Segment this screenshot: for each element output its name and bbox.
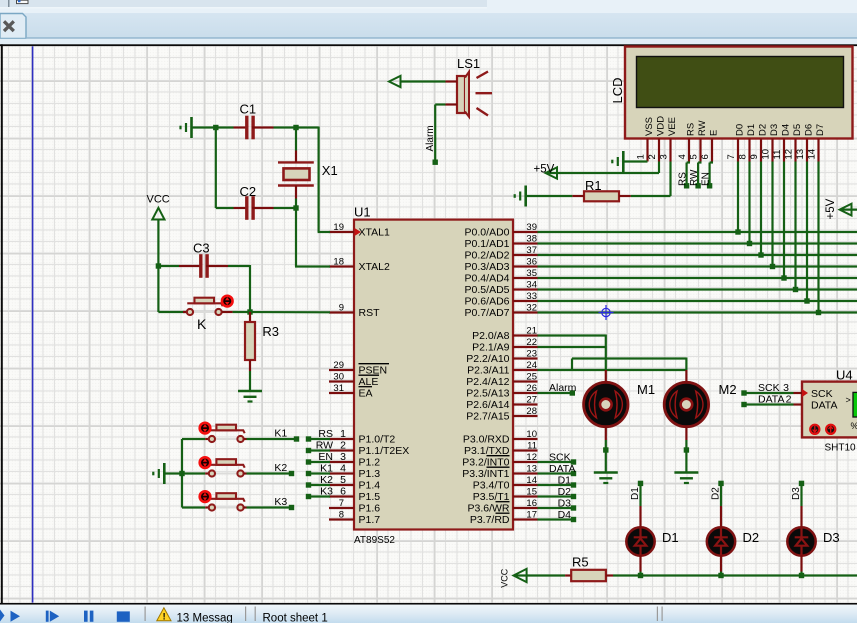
svg-text:XTAL1: XTAL1 [359,227,390,239]
svg-text:RS: RS [318,428,333,440]
svg-text:P0.4/AD4: P0.4/AD4 [465,273,510,285]
svg-text:E: E [708,130,719,136]
junction D1 rail [638,573,643,578]
junction key bank [179,471,184,476]
svg-text:3: 3 [783,382,789,394]
svg-text:C1: C1 [240,102,257,117]
lcd pin VEE stub [669,139,671,162]
pin P1.4 stub [329,484,354,486]
wire P0.4 bus [538,277,857,279]
wire LCD data1 drop [748,162,750,244]
pin P0.2/AD2 stub [513,254,538,256]
wire C1 to X1 node [274,126,298,128]
junction C3 left [156,263,161,268]
node EN start [306,459,311,464]
svg-text:K2: K2 [320,474,333,486]
svg-text:11: 11 [527,440,537,451]
wire P2.0 [538,334,606,336]
svg-text:D1: D1 [746,124,757,136]
svg-text:K3: K3 [274,496,287,508]
capacitor C3 [199,254,202,278]
svg-text:21: 21 [526,325,537,336]
resistor R5 [571,570,606,581]
lead C3 right [206,265,228,267]
sensor knob 1 [810,425,819,434]
wire D3 [538,507,574,509]
svg-text:19: 19 [333,222,344,233]
wire C1 left [216,126,234,128]
svg-text:P0.1/AD1: P0.1/AD1 [465,238,510,250]
wire P2.3 [538,369,687,371]
svg-text:13: 13 [795,149,806,160]
pin P1.6 stub [329,507,354,509]
ground at R1 [524,186,527,207]
svg-text:K3: K3 [320,485,333,497]
svg-text:K: K [197,316,207,332]
svg-text:P3.7/RD: P3.7/RD [470,514,510,526]
pin RST stub [329,311,354,313]
pin P2.6/A14 stub [513,403,538,405]
svg-text:D7: D7 [815,124,826,136]
lead R1 left [572,195,584,197]
wire P0.5 bus [538,288,857,290]
wire +5V to VDD [547,172,660,174]
node D2 end [571,494,576,499]
wire LCD data7 drop [817,162,819,313]
pin P0.5/AD5 stub [513,288,538,290]
svg-text:33: 33 [526,291,537,302]
svg-text:38: 38 [526,233,537,244]
lead X1 top [295,151,297,163]
wire LCD RW hook [698,161,701,163]
svg-text:12: 12 [526,452,537,463]
step button triangle [50,611,59,622]
svg-text:RW: RW [316,439,333,451]
svg-text:VCC: VCC [500,568,510,588]
lcd pin VSS stub [646,139,648,162]
svg-text:M1: M1 [637,382,655,397]
svg-text:X1: X1 [322,163,338,178]
svg-text:EN: EN [318,451,333,463]
junction data0 on P0 [735,229,740,234]
motor M1 [584,382,628,426]
overline INT1 [487,466,510,468]
node SCK U4 [741,390,746,395]
node K1 start [306,471,311,476]
svg-text:P1.3: P1.3 [359,468,381,480]
svg-text:+5V: +5V [825,198,837,219]
pause button [84,611,88,622]
svg-text:D4: D4 [780,124,791,136]
wire C2 left [216,207,234,209]
svg-text:P1.1/T2EX: P1.1/T2EX [359,445,410,457]
lead D1 LED top [639,506,641,529]
svg-text:P0.2/AD2: P0.2/AD2 [465,250,510,262]
svg-text:SHT10: SHT10 [825,443,857,454]
lead M1 bottom [605,427,607,441]
wire C3 left [158,265,179,267]
svg-text:1: 1 [635,154,646,159]
wire K3 left [182,506,205,508]
lcd module body [625,47,853,139]
wire P2.2 jog horizontal [572,357,686,359]
play button [11,611,21,622]
pin P3.4/T0 stub [513,484,538,486]
svg-text:P2.6/A14: P2.6/A14 [466,399,509,411]
wire DATA [538,472,574,474]
svg-text:EN: EN [701,172,712,186]
pin EA stub [329,392,354,394]
svg-text:P2.3/A11: P2.3/A11 [467,365,510,377]
pin P2.3/A11 stub [513,369,538,371]
pin P2.0/A8 stub [513,334,538,336]
sensor display green [853,392,857,417]
lcd pin RW stub [699,139,701,162]
lead D3 LED bottom [800,555,802,572]
wire LCD data4 drop [783,162,785,279]
switch K1 [215,438,237,440]
pin P0.3/AD3 stub [513,265,538,267]
node DATA end [571,471,576,476]
pin P3.6/WR stub [513,507,538,509]
sheet border blue line [32,46,34,602]
lcd pin D2 stub [760,139,762,162]
pin XTAL2 stub [329,265,354,267]
svg-text:K2: K2 [274,462,287,474]
wire D2 [538,495,574,497]
svg-text:DATA: DATA [811,400,837,412]
pin P1.0/T2 stub [329,438,354,440]
svg-text:RST: RST [359,307,381,319]
pin P0.0/AD0 stub [513,231,538,233]
wire to XTAL1 [318,231,330,233]
svg-text:6: 6 [700,154,711,159]
wire X1 top wire [295,128,297,151]
bottom bar background [0,605,857,623]
led D2 [707,527,735,555]
svg-text:%: % [851,421,857,431]
wire EN to pin [309,461,331,463]
svg-text:14: 14 [806,149,817,160]
svg-text:SCK: SCK [811,388,833,400]
junction C1 left [213,125,218,130]
svg-text:24: 24 [526,360,537,371]
lcd pin D7 stub [817,139,819,162]
lcd pin D6 stub [806,139,808,162]
overline INT0 [487,455,510,457]
svg-text:1: 1 [340,428,346,440]
svg-text:23: 23 [526,348,537,359]
overline RD [496,512,510,514]
wire C2 to X1 node [274,207,298,209]
lcd pin D1 stub [748,139,750,162]
wire RS to pin [309,438,331,440]
wire LCD RS drop [685,163,687,185]
pin XTAL1 stub [329,231,354,233]
wire DATA to U4 [744,403,794,405]
svg-text:P1.6: P1.6 [359,503,381,515]
svg-text:P3.0/RXD: P3.0/RXD [463,434,510,446]
svg-text:P3.4/T0: P3.4/T0 [473,480,510,492]
speaker LS1 [457,76,465,113]
lead K left [183,311,187,313]
svg-text:31: 31 [333,383,344,394]
svg-text:P1.7: P1.7 [359,514,381,526]
status separators middle [245,607,246,622]
wire D2 to rail [720,572,722,576]
pin P3.7/RD stub [513,518,538,520]
lead R3 top [249,312,251,322]
top window chrome background [0,0,857,46]
ground below M2 [674,471,698,474]
pin U4 SCK arrow [802,389,808,397]
svg-text:P0.3/AD3: P0.3/AD3 [465,261,510,273]
svg-text:K1: K1 [274,428,287,440]
svg-text:7: 7 [726,154,737,159]
svg-text:D6: D6 [803,124,814,136]
svg-text:P3.3/INT1: P3.3/INT1 [462,468,509,480]
svg-text:AT89S52: AT89S52 [354,535,395,546]
ground at LCD VSS [622,151,625,172]
wire R3 to ground [249,371,251,391]
wire LCD RW drop [697,163,699,185]
wire gnd to C1 junction [192,126,219,128]
toolbar fragment top-left [0,0,487,9]
pin P2.1/A9 stub [513,346,538,348]
wire D2 down [720,483,722,506]
status separator [145,607,146,622]
node RW start [306,448,311,453]
junction D3 rail [799,573,804,578]
svg-text:26: 26 [526,383,537,394]
capacitor C1 [245,116,248,140]
wire VSS to gnd [623,160,647,162]
schematic frame left black border [1,44,3,604]
wire VCC to K row [157,266,159,312]
wire D1 to rail [639,572,641,576]
svg-text:P2.7/A15: P2.7/A15 [466,411,509,423]
svg-text:35: 35 [526,268,537,279]
svg-text:17: 17 [526,509,537,520]
node M2 gnd wire [684,447,689,452]
wire VEE down [669,162,671,197]
junction data6 on P0 [804,298,809,303]
power terminal VCC [152,208,164,220]
node K2 start [306,482,311,487]
lead C1 left [234,126,249,128]
partial button far left [0,610,5,622]
tab bar bottom edge [26,37,857,39]
junction data4 on P0 [781,275,786,280]
svg-text:10: 10 [760,149,771,160]
svg-text:Root sheet 1: Root sheet 1 [263,613,328,623]
svg-text:VEE: VEE [667,117,678,136]
wire P0.0 bus [538,231,857,233]
svg-text:D2: D2 [757,124,768,136]
lead LS1 pin2 [446,103,458,105]
ground below M1 [594,471,618,474]
pin P3.3/INT1 stub [513,472,538,474]
node Alarm wire end [433,160,438,165]
svg-text:DATA: DATA [549,463,575,475]
svg-text:18: 18 [333,256,344,267]
wire X1 bottom wire [295,199,297,209]
svg-text:D3: D3 [558,498,572,510]
svg-text:8: 8 [339,509,344,520]
overline WR [496,501,510,503]
svg-text:10: 10 [526,429,537,440]
svg-text:D3: D3 [791,487,802,500]
svg-text:5: 5 [688,154,699,159]
node K1 end [294,436,299,441]
crystal X1 [278,161,314,163]
lead D1 LED bottom [639,555,641,572]
svg-text:RS: RS [685,123,696,136]
switch K [193,311,215,313]
node LCD RW [695,183,700,188]
svg-text:25: 25 [526,371,537,382]
svg-text:R5: R5 [572,555,589,570]
wire LCD data6 drop [806,162,808,302]
wire P0.1 bus [538,242,857,244]
svg-text:RS: RS [678,172,689,186]
overline PSEN [359,363,390,365]
node SCK end [571,459,576,464]
lead D2 LED top [720,506,722,529]
node D1 end [571,482,576,487]
wire VCC to R5 [514,574,565,576]
svg-text:13 Messag: 13 Messag [177,613,233,623]
wire P0.2 bus [538,254,857,256]
wire LCD data2 drop [760,162,762,256]
ground below R3 [238,390,262,393]
svg-text:RW: RW [689,169,700,186]
svg-text:16: 16 [526,498,537,509]
svg-text:11: 11 [772,150,783,160]
svg-text:28: 28 [526,406,537,417]
pin P2.7/A15 stub [513,415,538,417]
wire LCD EN drop [708,163,710,185]
lcd screen [637,57,844,108]
overline ALE [359,374,380,376]
wire SCK [538,461,574,463]
node D3 top [799,481,804,486]
svg-text:9: 9 [749,154,760,159]
svg-text:15: 15 [526,486,537,497]
svg-text:Alarm: Alarm [425,125,436,151]
wire K to RST [233,311,330,313]
svg-text:3: 3 [658,154,669,159]
pin P3.5/T1 stub [513,495,538,497]
svg-text:12: 12 [783,149,794,160]
lead R5 left [565,574,571,576]
svg-text:29: 29 [333,360,344,371]
wire P2.2 jog vertical [571,359,573,371]
wire gnd to keys junction [164,472,182,474]
power terminal +5V right [840,204,852,216]
svg-text:P2.5/A13: P2.5/A13 [466,388,509,400]
svg-text:34: 34 [526,279,537,290]
wire P0.3 bus [538,265,857,267]
schematic frame bottom black line [0,603,857,605]
svg-text:D2: D2 [558,486,572,498]
switch K2 [215,473,237,475]
wire M1 to gnd [605,440,607,473]
wire +5V right stub [841,209,857,211]
terminal arrow LS1 [389,76,401,87]
svg-text:2: 2 [647,154,658,159]
pin P0.6/AD6 stub [513,300,538,302]
svg-text:R1: R1 [585,178,602,193]
wire D4 [538,518,574,520]
svg-text:22: 22 [526,337,537,348]
led D3 [787,527,815,555]
node D3 end [571,505,576,510]
svg-text:D5: D5 [792,124,803,136]
lcd pin VDD stub [658,139,660,162]
pin P1.3 stub [329,472,354,474]
svg-text:P0.5/AD5: P0.5/AD5 [465,284,510,296]
svg-text:K1: K1 [320,462,333,474]
lead R5 right [606,574,613,576]
junction data1 on P0 [747,241,752,246]
wire K1 to pin [309,472,331,474]
svg-text:D0: D0 [734,124,745,136]
wire LCD RS hook [687,161,690,163]
resistor R3 [245,322,255,360]
wire key bank vertical [181,439,183,508]
svg-text:U4: U4 [836,368,853,383]
svg-text:P1.5: P1.5 [359,491,381,503]
node D1 top [638,481,643,486]
wire VDD down [658,162,660,174]
wire to XTAL2 [295,265,330,267]
svg-text:D2: D2 [710,487,721,500]
lead C1 right [252,126,274,128]
wire K1 right [247,438,297,440]
svg-text:7: 7 [339,498,344,509]
led D1 [626,527,654,555]
svg-text:LS1: LS1 [457,56,480,71]
wire LCD EN hook [710,161,713,163]
capacitor C2 [245,196,248,220]
wire K3 to pin [309,495,331,497]
junction data3 on P0 [770,264,775,269]
lead D3 LED top [800,506,802,529]
wire LS1 pin2 vert [434,105,436,163]
svg-text:VCC: VCC [147,194,170,206]
wire LED rail [613,574,857,576]
wire VCC stem [157,220,159,267]
svg-text:P0.7/AD7: P0.7/AD7 [465,307,510,319]
svg-text:SCK: SCK [549,452,571,464]
svg-text:M2: M2 [719,382,737,397]
wire RW to pin [309,449,331,451]
svg-text:P1.4: P1.4 [359,480,381,492]
wire LS1 pin2 horiz [435,103,445,105]
wire K2 to pin [309,484,331,486]
junction X1 top [293,125,298,130]
pin P3.0/RXD stub [513,438,538,440]
wire XTAL1 vertical [318,127,320,233]
pin PSEN stub [329,369,354,371]
lead D2 LED bottom [720,555,722,572]
pin P0.7/AD7 stub [513,311,538,313]
lead K1 left [205,438,209,440]
power terminal +5V [546,167,558,178]
ground at C1 left [190,117,193,138]
wire SCK to U4 [744,392,794,394]
